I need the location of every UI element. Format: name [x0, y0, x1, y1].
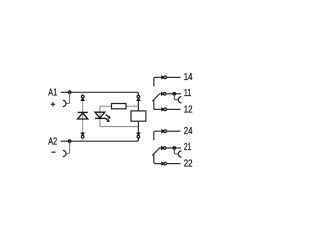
contact 2 NO post from terminal 24: [154, 131, 164, 140]
svg-text:21: 21: [184, 142, 191, 153]
wire A2 socket stub: [66, 141, 69, 153]
wire A1 socket stub: [66, 92, 69, 103]
pin arrow row 24: [162, 129, 164, 133]
LED emission arrow 1: [106, 115, 111, 119]
socket circle coil branch top: [137, 96, 140, 99]
socket circle row 11: [163, 93, 166, 96]
pin arrow diode branch top: [81, 98, 85, 100]
socket contact A2: [63, 150, 66, 156]
diode V1 (freewheel, cathode bar up, triangle apex up): [78, 112, 88, 119]
relay coil K1: [131, 111, 146, 121]
wire top rail A1 to coil branch: [70, 92, 139, 95]
node A2 junction: [68, 139, 72, 143]
socket circle row 12: [164, 108, 167, 111]
wire 11 socket stub: [174, 94, 178, 100]
LED emission arrow 2: [105, 118, 110, 122]
socket circle coil branch bottom: [137, 135, 140, 138]
wire terminal 14: [167, 76, 181, 78]
node 21 junction: [172, 146, 176, 150]
pin arrow row 12: [162, 108, 164, 112]
pin arrow row 11: [161, 92, 163, 96]
pin arrow diode branch bottom: [81, 133, 85, 135]
wire coil branch vertical upper: [137, 99, 139, 111]
svg-text:A1: A1: [48, 88, 57, 99]
contact 2 movable arm: [152, 148, 160, 155]
socket circle diode branch bottom: [81, 135, 84, 141]
wire bottom rail A2 to coil branch: [70, 138, 139, 141]
wire terminal 12: [167, 108, 181, 110]
wire terminal 11: [166, 93, 181, 95]
socket contact A1: [63, 100, 66, 106]
pin arrow coil branch top: [137, 98, 141, 100]
socket circle row 22: [164, 162, 167, 165]
wire diode branch vertical: [82, 99, 84, 133]
svg-text:12: 12: [184, 105, 193, 116]
socket circle row 24: [164, 130, 167, 133]
wire terminal 21: [166, 147, 181, 149]
socket circle diode branch top: [81, 92, 84, 98]
wire A1 lead: [61, 91, 70, 93]
wire terminal 24: [167, 130, 181, 132]
polarity minus sign: [52, 151, 56, 153]
svg-text:14: 14: [184, 72, 193, 83]
contact 1 NO post from terminal 14: [154, 77, 164, 86]
svg-text:11: 11: [184, 88, 191, 99]
contact 1 movable arm: [152, 94, 160, 101]
socket circle row 21: [163, 147, 166, 150]
wire 21 socket stub: [174, 148, 178, 154]
node 11 junction: [172, 92, 176, 96]
pin arrow row 21: [161, 146, 163, 150]
pin arrow row 14: [162, 76, 164, 80]
svg-text:24: 24: [184, 126, 193, 137]
contact 1 pole post to terminal 12: [154, 100, 164, 110]
resistor R1: [112, 104, 127, 109]
node A1 junction: [68, 90, 72, 94]
LED H1 (apex down, cathode bar below): [95, 112, 105, 118]
socket contact 21: [178, 151, 181, 157]
socket contact 11: [178, 97, 181, 103]
wire terminal 22: [167, 163, 181, 165]
wire coil branch vertical lower: [137, 121, 139, 132]
svg-text:A2: A2: [48, 137, 57, 148]
polarity plus sign: [51, 102, 55, 106]
pin arrow coil branch bottom: [137, 133, 141, 135]
svg-text:22: 22: [184, 159, 193, 170]
contact 2 pole post to terminal 22: [154, 154, 164, 164]
socket circle row 14: [164, 76, 167, 79]
wire LED loop (left vertical, top edge, bottom edge): [100, 106, 138, 126]
pin arrow row 22: [162, 162, 164, 166]
wire A2 lead: [61, 140, 70, 142]
